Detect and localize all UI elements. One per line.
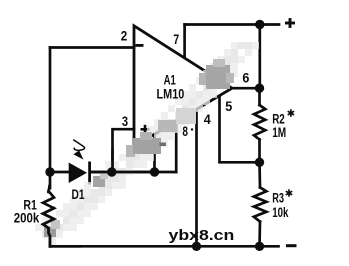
svg-text:7: 7 <box>173 32 179 47</box>
supply minus symbol <box>286 244 297 247</box>
wire pin 1 vertical <box>153 135 156 173</box>
wire bottom rail V- <box>50 245 279 248</box>
overlay: wire bottom rail left redrawn <box>50 245 80 248</box>
svg-text:5: 5 <box>225 99 232 114</box>
wire pin 3 jog <box>113 129 135 172</box>
svg-text:10k: 10k <box>272 205 289 220</box>
svg-text:ybx8.cn: ybx8.cn <box>169 227 235 244</box>
svg-text:1M: 1M <box>272 125 286 140</box>
resistor R3 zigzag <box>254 187 267 221</box>
wire pin 4 vertical <box>195 110 198 247</box>
wire pin 6 output <box>232 87 260 90</box>
svg-text:R3: R3 <box>272 191 284 206</box>
svg-text:2: 2 <box>121 28 128 43</box>
wire R3 bottom lead <box>258 222 261 247</box>
node pin6/R2 junction <box>255 84 264 93</box>
overlay: node pin1/pin8 dot redrawn <box>150 167 159 176</box>
wire pin 2 input from left rail <box>50 46 134 49</box>
wire D1 anode lead <box>50 171 69 174</box>
svg-text:LM10: LM10 <box>157 87 185 102</box>
wire pin 7 drop <box>183 25 186 57</box>
wire pin 8 vertical <box>175 121 178 172</box>
wire R2 top lead <box>258 88 261 105</box>
svg-text:A1: A1 <box>164 72 177 87</box>
overlay: wire pin 3 vertical redrawn <box>111 150 114 172</box>
node V+ junction <box>255 20 264 29</box>
supply plus symbol <box>285 18 295 28</box>
op-amp A1 triangle <box>134 26 232 147</box>
wire R2 bottom lead <box>258 140 261 163</box>
overlay: wire D1 node redrawn <box>43 150 155 246</box>
node R2/R3/pin5 junction <box>255 158 264 167</box>
svg-text:R2: R2 <box>272 111 285 126</box>
op-amp non-inverting input plus <box>141 125 150 134</box>
wire top rail V+ <box>185 23 279 26</box>
svg-text:6: 6 <box>242 71 249 86</box>
op-amp inverting input minus <box>136 44 144 47</box>
diode D1 <box>69 162 91 185</box>
node pin4/V- junction <box>192 242 201 251</box>
svg-text:3: 3 <box>122 114 129 129</box>
overlay: node pin3/D1 dot redrawn <box>107 167 116 176</box>
wire R1 bottom lead <box>49 228 52 246</box>
svg-text:200k: 200k <box>14 211 40 226</box>
R2 asterisk <box>288 109 294 116</box>
node R3/V- junction <box>255 242 264 251</box>
D1 light arrow squiggle <box>73 140 84 160</box>
node junction dots <box>45 20 264 251</box>
wire pin 5 L <box>220 97 260 163</box>
wire R3 top lead <box>258 162 261 187</box>
wire D1 cathode to pin 8 corner <box>91 171 176 174</box>
wire left rail <box>49 48 52 189</box>
svg-text:D1: D1 <box>72 187 85 202</box>
watermark stripe <box>35 42 259 245</box>
R3 asterisk <box>286 189 292 196</box>
resistor R2 zigzag <box>254 105 265 140</box>
resistor R1 zigzag <box>43 191 54 228</box>
node R1/D1 junction <box>45 167 54 176</box>
overlay: resistor R1 bottom redrawn <box>43 208 54 246</box>
pin 8 dot mark <box>191 128 193 130</box>
svg-text:8: 8 <box>182 124 188 139</box>
svg-text:4: 4 <box>204 112 211 127</box>
wire right vertical to pin 6 node <box>258 25 261 89</box>
